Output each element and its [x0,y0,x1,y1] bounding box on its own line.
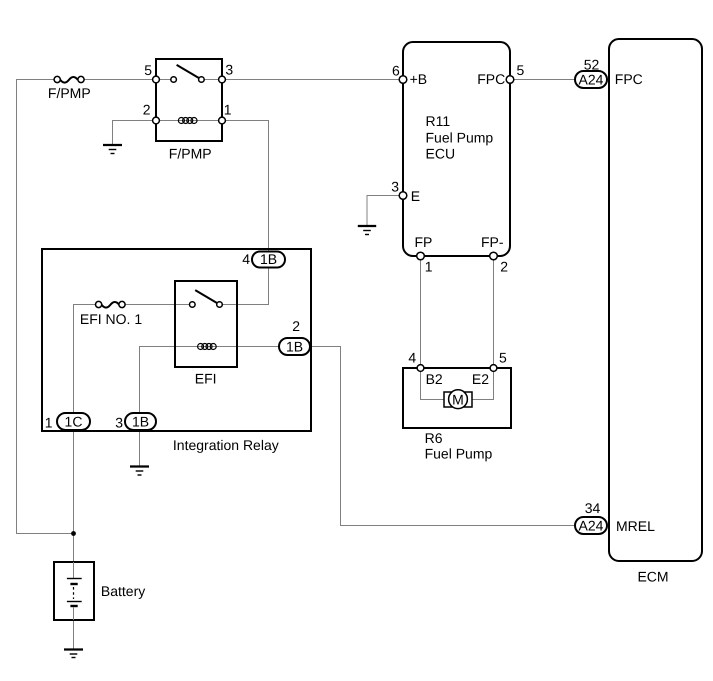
svg-text:1C: 1C [65,413,83,429]
svg-text:1B: 1B [286,338,303,354]
wire: battery bottom to ground G4 [73,607,75,649]
wire: R6 pin 4 to motor left [421,368,447,400]
wire: relay pin 3 to ECU +B [222,79,403,81]
svg-text:2: 2 [143,101,151,117]
svg-text:F/PMP: F/PMP [48,85,91,101]
wire: relay pin 1 down to integration relay 1B(4) [222,121,269,252]
svg-text:B2: B2 [426,371,443,387]
svg-text:3: 3 [115,414,123,430]
ground G2 (ECU E pin) [358,226,376,235]
svg-text:+B: +B [410,71,428,87]
svg-text:F/PMP: F/PMP [169,146,212,162]
svg-text:R6: R6 [425,430,443,446]
connector 1B pin 3 [115,413,156,430]
svg-text:3: 3 [391,178,399,194]
svg-text:1: 1 [45,414,53,430]
connector 1B pin 4 [242,251,285,268]
wire: relay pin 2 to ground G1 [113,121,157,145]
wire: ECU FP- pin down to R6 pin 5 [493,256,495,368]
pin 3 [219,76,226,83]
svg-text:34: 34 [585,500,601,516]
coil [178,118,197,124]
pin 6 +B [399,76,407,84]
ground G3 (under 1B pin 3) [130,467,149,476]
ground G1 (relay pin 2) [103,145,122,154]
pin 5 [490,365,497,372]
R11 Fuel Pump ECU box [391,42,524,274]
svg-text:4: 4 [408,349,416,365]
wire: ECU E pin to ground G2 [367,196,403,226]
wire: R6 pin 5 to motor right [470,368,494,400]
fuse EFI NO. 1 [80,301,142,327]
connector 1C pin 1 [45,413,90,430]
svg-text:E: E [411,188,420,204]
wire: pin5 to switch contact [156,79,174,81]
svg-text:Fuel Pump: Fuel Pump [426,130,494,146]
svg-text:A24: A24 [579,517,604,533]
svg-text:3: 3 [225,62,233,78]
switch contacts [190,302,196,308]
svg-text:5: 5 [517,62,525,78]
pin 5 [153,76,160,83]
pin 4 [417,365,424,372]
battery [54,562,145,620]
wire: 1B(2) right, down and right to ECM MREL via A24 [310,347,575,526]
svg-text:2: 2 [500,258,508,274]
pin 2 [153,117,160,124]
wire: ECU FPC pin to ECM FPC via A24 [510,79,609,81]
relay F/PMP [143,59,234,162]
svg-text:A24: A24 [579,71,604,87]
wire: EFI switch contact to fuse EFI NO.1 and down through 1C to junction [74,305,193,534]
svg-text:M: M [452,391,464,407]
svg-text:6: 6 [392,63,400,79]
svg-text:4: 4 [242,251,250,267]
svg-text:2: 2 [292,318,300,334]
svg-text:FPC: FPC [615,71,643,87]
switch arm [195,290,219,304]
connector A24 pin 34 (MREL) [575,500,607,534]
integration relay box [42,249,311,431]
relay EFI [175,281,237,387]
svg-text:MREL: MREL [616,518,655,534]
svg-text:E2: E2 [472,371,489,387]
wire: fuse F/PMP right to relay pin 5 [81,79,156,81]
svg-text:1: 1 [224,101,232,117]
svg-text:1: 1 [425,258,433,274]
wire: 1B(4) to EFI relay switch [220,268,269,305]
svg-text:Integration Relay: Integration Relay [173,437,279,453]
pin 2 FP- [490,252,498,260]
ground G4 (battery) [64,650,83,658]
svg-text:FP: FP [415,234,433,250]
svg-text:1B: 1B [260,251,277,267]
svg-text:Battery: Battery [101,583,145,599]
svg-text:R11: R11 [426,113,451,129]
svg-text:FPC: FPC [477,71,505,87]
R6 Fuel Pump box [403,349,511,461]
wire: switch contact to pin3 [201,79,222,81]
svg-text:ECM: ECM [637,568,668,584]
switch arm [177,65,202,80]
wire: ECU FP pin down to R6 pin 4 [420,256,422,368]
switch contacts [171,77,177,83]
wire: junction down into battery [73,534,75,579]
motor M [444,392,472,407]
svg-text:EFI: EFI [195,371,217,387]
wire: battery feed from fuse F/PMP left down left edge to junction [17,80,74,534]
pin 5 FPC [506,76,514,84]
svg-text:5: 5 [499,349,507,365]
svg-text:52: 52 [584,57,600,73]
fuse F/PMP [48,76,91,101]
connector A24 pin 52 (FPC) [575,57,607,88]
junction node [71,531,76,536]
svg-text:1B: 1B [132,413,149,429]
ECM box [609,39,702,584]
pin 1 [219,117,226,124]
svg-text:Fuel Pump: Fuel Pump [425,445,493,461]
coil [198,344,217,350]
wire: EFI relay coil line left arm down through 1B(3) to ground G3 [140,347,280,466]
connector 1B pin 2 [279,318,310,355]
svg-text:ECU: ECU [426,145,456,161]
svg-text:5: 5 [144,62,152,78]
svg-text:EFI NO. 1: EFI NO. 1 [80,311,142,327]
wire: pin2 to pin1 through coil [156,120,222,122]
pin 3 E [399,192,407,200]
pin 1 FP [417,252,425,260]
svg-text:FP-: FP- [481,234,504,250]
